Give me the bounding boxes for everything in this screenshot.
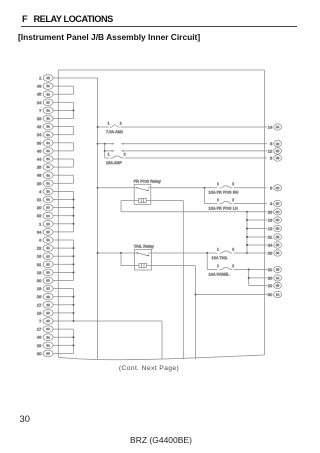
svg-text:5A: 5A [47,157,50,161]
svg-text:34: 34 [37,229,42,234]
wire FR FOG relay output to fog fuses [151,187,218,204]
left pin 34 (3D) [37,229,58,236]
svg-text:1A: 1A [276,276,279,280]
svg-text:15A ANP: 15A ANP [106,161,122,165]
svg-text:17: 17 [37,302,42,307]
svg-text:12: 12 [268,226,273,231]
left pin 30 (3D) [37,277,58,284]
left pin 45 (5A) [37,91,58,98]
left pin 1 (3E) [39,75,58,82]
J/B enclosure box [58,70,264,360]
svg-text:31: 31 [37,262,42,267]
svg-text:3D: 3D [276,186,279,190]
left pin 24 (3C) [37,99,58,106]
svg-text:1: 1 [108,152,110,156]
left pin 24 (5A) [37,131,58,138]
left pin 20 (3C) [37,204,58,211]
svg-text:30: 30 [37,351,42,356]
right pin 36 (1A) [265,275,282,281]
continuation note [0,365,298,372]
left pin 16 (3C) [37,253,58,260]
right pin 12 (3D) [265,225,282,231]
svg-text:5A: 5A [47,165,50,169]
bus bar joining left pins rows 31-34 [58,329,74,353]
svg-text:3C: 3C [46,327,49,331]
wire bus to TAIL relay [98,252,135,254]
svg-text:5A: 5A [47,181,50,185]
svg-text:32: 32 [37,213,42,218]
svg-text:23: 23 [37,116,42,121]
svg-text:14: 14 [268,124,273,129]
left pin 49 (5A) [37,334,58,341]
right pin 12 (3D) [265,148,282,154]
svg-text:1: 1 [217,182,219,186]
svg-text:24: 24 [268,242,273,247]
bus bar joining left pins rows 20-25 [58,240,74,281]
svg-text:7: 7 [39,318,42,323]
wire arrow branch vertical [98,143,106,158]
svg-text:3D: 3D [46,270,49,274]
svg-text:10A PANEL: 10A PANEL [209,272,230,276]
svg-text:50: 50 [268,292,273,297]
bus bar joining left pins rows 3-5 [58,102,74,118]
svg-text:10A FR FOG RH: 10A FR FOG RH [209,191,239,195]
svg-text:3B: 3B [47,295,50,299]
fuse 15A ANP [105,152,265,165]
left pin 19 (3C) [37,285,58,292]
svg-text:5A: 5A [47,117,50,121]
svg-text:30: 30 [37,278,42,283]
svg-text:FR FOG Relay: FR FOG Relay [134,179,161,184]
svg-text:24: 24 [37,100,42,105]
wire TAIL coil right lead to pin 50 and next page [152,266,265,360]
left pin 21 (5A) [37,196,58,203]
svg-text:4: 4 [39,189,42,194]
svg-text:3B: 3B [47,303,50,307]
bus bar joining left pins rows 26-30 [58,289,74,322]
bus bar joining left pins rows 10-11 [58,159,73,167]
left pin 31 (3C) [37,261,58,268]
svg-text:5A: 5A [47,92,50,96]
svg-text:17: 17 [37,327,42,332]
svg-text:3D: 3D [46,311,49,315]
left pin 17 (3C) [37,326,58,333]
svg-text:1: 1 [217,247,219,251]
svg-text:2: 2 [232,247,234,251]
left pin 42 (5A) [37,123,58,130]
svg-text:5: 5 [270,185,273,190]
svg-text:1A: 1A [276,292,279,296]
right pin 50 (1A) [265,291,282,297]
footer model code [0,435,320,445]
svg-text:49: 49 [37,335,42,340]
svg-text:3C: 3C [276,210,279,214]
right pin 21 (3B) [265,234,282,240]
svg-text:8: 8 [270,141,273,146]
left pin 4 (5A) [39,188,58,195]
wire break arrows row 2 (to pin 12) [105,150,265,152]
svg-text:2: 2 [124,152,126,156]
svg-text:7.5A AM1: 7.5A AM1 [106,130,123,134]
svg-text:3C: 3C [46,262,49,266]
svg-text:5: 5 [270,155,273,160]
svg-text:21: 21 [37,197,42,202]
svg-text:5A: 5A [47,141,50,145]
svg-text:13: 13 [268,217,273,222]
page title [22,14,113,24]
svg-text:46: 46 [37,148,42,153]
wire pin1 row to main bus [58,77,97,79]
fuse 7.5A AM1 [98,121,265,134]
svg-text:3D: 3D [276,284,279,288]
right pin 24 (3D) [265,242,282,248]
svg-text:3C: 3C [46,214,49,218]
svg-text:5A: 5A [47,84,50,88]
svg-text:3B: 3B [276,235,279,239]
svg-text:22: 22 [37,246,42,251]
svg-text:3: 3 [270,201,273,206]
fuse 10A FR FOG RH [209,182,265,194]
svg-text:48: 48 [37,173,42,178]
svg-text:24: 24 [37,132,42,137]
svg-text:2: 2 [120,121,122,125]
left pin 18 (3D) [37,269,58,276]
junction main bus / FR FOG relay switch [97,187,99,189]
svg-text:19: 19 [37,310,42,315]
svg-text:3E: 3E [47,76,50,80]
svg-text:18: 18 [37,270,42,275]
fuse 10A TAIL [212,247,265,259]
svg-text:3C: 3C [46,206,49,210]
svg-text:3D: 3D [276,243,279,247]
svg-text:7: 7 [39,108,42,113]
svg-text:26: 26 [268,209,273,214]
svg-text:26: 26 [37,181,42,186]
left pin 29 (5A) [37,342,58,349]
left pin 7 (5A) [39,107,58,114]
wire break arrows row 1 (to pin 8) [105,143,265,145]
left pin 26 (5A) [37,180,58,187]
fuse 10A PANEL [209,264,265,276]
fuse 10A FR FOG LH [209,198,265,210]
svg-text:31: 31 [268,267,273,272]
svg-text:5A: 5A [47,238,50,242]
right pin 5 (3D) [265,185,282,191]
svg-text:TAIL Relay: TAIL Relay [134,243,154,248]
svg-text:5A: 5A [47,335,50,339]
left pin 38 (5A) [37,139,58,146]
svg-text:21: 21 [268,234,273,239]
wire FR FOG coil to pin 26 row [121,201,265,212]
svg-text:1: 1 [39,221,42,226]
right pin 8 (3D) [265,141,282,147]
wire branch to PANEL fuse [207,253,217,270]
svg-text:3B: 3B [276,156,279,160]
svg-text:3D: 3D [46,230,49,234]
right pin 3 (3C) [265,200,282,206]
junction main bus / AM1 branch [97,126,99,128]
svg-text:5A: 5A [47,149,50,153]
right pin 26 (3C) [265,209,282,215]
svg-text:1: 1 [217,264,219,268]
svg-text:3C: 3C [46,287,49,291]
right pin 31 (3B) [265,266,282,272]
svg-text:23: 23 [268,250,273,255]
svg-text:3D: 3D [276,218,279,222]
left pin 43 (5A) [37,83,58,90]
svg-text:6: 6 [39,237,42,242]
svg-text:3D: 3D [276,149,279,153]
svg-text:22: 22 [268,283,273,288]
right pin 5 (3B) [265,155,282,161]
svg-text:5A: 5A [47,343,50,347]
svg-text:3D: 3D [46,351,49,355]
svg-text:16: 16 [37,254,42,259]
title underline [21,26,297,27]
subtitle [18,32,200,42]
svg-text:26: 26 [37,294,42,299]
svg-text:2: 2 [232,264,234,268]
bus bar joining left pins rows 1-2 [58,86,73,94]
right pin 23 (3D) [265,250,282,256]
bus bar joining left pins rows 12-13 [58,175,73,183]
svg-text:5A: 5A [47,173,50,177]
svg-text:10A TAIL: 10A TAIL [212,256,228,260]
right pin 22 (3D) [265,282,282,288]
wire bus to FR FOG relay [98,187,135,189]
svg-text:5A: 5A [47,246,50,250]
page number [20,413,30,424]
svg-text:3D: 3D [46,222,49,226]
bus bar joining left pins rows 8-9 [58,143,73,151]
wire TAIL relay coil feed [121,253,134,266]
right pin 14 (3A) [265,124,282,130]
svg-text:3C: 3C [46,100,49,104]
bus bar joining left pins rows 14-19 [58,191,74,232]
left pin 22 (5A) [37,245,58,252]
left pin 25 (5A) [37,164,58,171]
left pin 30 (3D) [37,350,58,357]
svg-text:42: 42 [37,124,42,129]
svg-text:29: 29 [37,343,42,348]
svg-text:20: 20 [37,205,42,210]
wire FR FOG coil right lead down to next page [151,201,184,360]
svg-text:5A: 5A [47,108,50,112]
left pin 19 (3D) [37,310,58,317]
svg-text:1: 1 [217,198,219,202]
left pin 7 (3D) [39,318,58,325]
left pin 46 (5A) [37,148,58,155]
svg-text:3B: 3B [276,268,279,272]
svg-text:10A FR FOG LH: 10A FR FOG LH [209,206,239,210]
svg-text:3D: 3D [276,251,279,255]
bus bar joining left pins rows 6-7 [58,127,73,135]
left pin 26 (3B) [37,293,58,300]
svg-text:5A: 5A [47,133,50,137]
left pin 32 (3C) [37,212,58,219]
left pin 44 (5A) [37,156,58,163]
left pin 17 (3B) [37,301,58,308]
tail output bus V2 [246,211,264,254]
main vertical bus [97,78,99,359]
relay FR FOG Relay [134,179,161,205]
svg-text:2: 2 [232,182,234,186]
left pin 6 (5A) [39,237,58,244]
svg-text:3D: 3D [276,142,279,146]
junction main bus / TAIL relay [97,252,99,254]
right pin 13 (3D) [265,217,282,223]
svg-text:1: 1 [39,75,42,80]
svg-text:3D: 3D [46,279,49,283]
junction main bus / arrow branch [97,143,99,145]
svg-text:5A: 5A [47,189,50,193]
svg-text:3D: 3D [46,319,49,323]
svg-text:3A: 3A [276,125,279,129]
svg-text:45: 45 [37,92,42,97]
left pin 1 (3D) [39,220,58,227]
svg-text:44: 44 [37,156,42,161]
left pin 48 (5A) [37,172,58,179]
svg-text:36: 36 [268,275,273,280]
svg-text:5A: 5A [47,198,50,202]
svg-text:38: 38 [37,140,42,145]
svg-text:5A: 5A [47,125,50,129]
svg-text:3C: 3C [46,254,49,258]
svg-text:1: 1 [108,121,110,125]
svg-text:2: 2 [232,198,234,202]
svg-text:19: 19 [37,286,42,291]
svg-text:3C: 3C [276,202,279,206]
relay TAIL Relay [134,243,154,270]
left pin 23 (5A) [37,115,58,122]
panel output bus V3 [248,269,265,286]
svg-text:12: 12 [268,148,273,153]
wire left pin 7 row continues to next page [74,321,163,360]
svg-text:3D: 3D [276,227,279,231]
svg-text:43: 43 [37,84,42,89]
wire TAIL relay output [152,252,218,254]
svg-text:25: 25 [37,165,42,170]
